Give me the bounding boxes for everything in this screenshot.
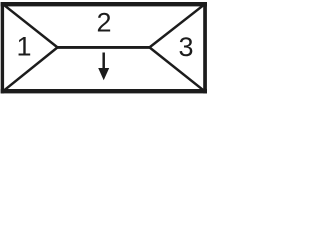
hip line from bottom-right corner to right apex xyxy=(150,47,206,91)
slope direction arrow (bottom roof face) xyxy=(98,53,109,81)
roof outline: left eave edge xyxy=(1,2,4,93)
svg-text:2: 2 xyxy=(96,8,111,38)
svg-text:1: 1 xyxy=(16,32,31,62)
svg-text:3: 3 xyxy=(178,32,193,62)
roof outline: right eave edge xyxy=(203,2,207,93)
hip line from top-left corner to left apex xyxy=(2,4,57,48)
ridge line between left apex and right apex xyxy=(58,46,150,49)
roof outline: top eave edge xyxy=(1,2,207,6)
roof outline: bottom eave edge xyxy=(1,89,207,93)
hip line from bottom-left corner to left apex xyxy=(2,47,57,91)
hip line from top-right corner to right apex xyxy=(150,4,206,48)
